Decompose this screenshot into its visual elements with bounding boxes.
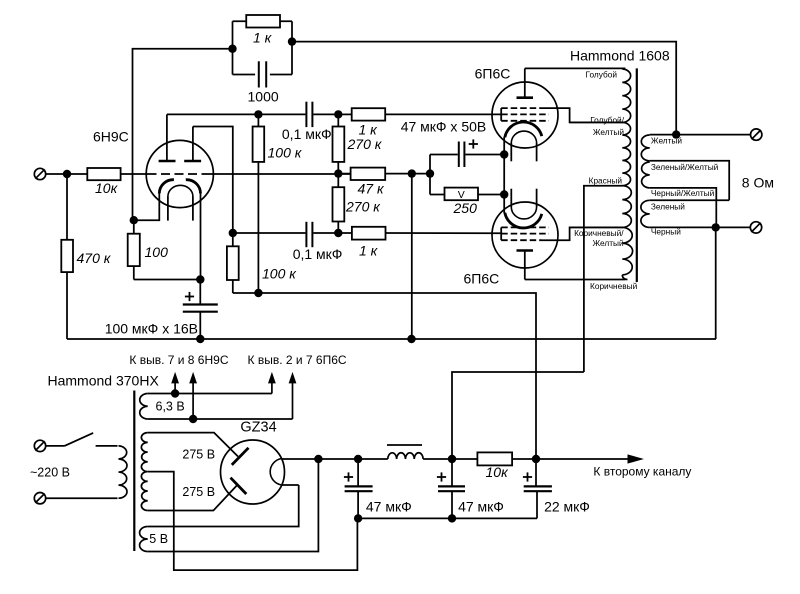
6П6С top cathode [505, 122, 542, 137]
resistor 470 к (input load) [66, 174, 68, 240]
svg-text:Желтый: Желтый [651, 136, 683, 146]
svg-text:GZ34: GZ34 [240, 420, 276, 436]
node anode1 [254, 110, 262, 118]
node cap1 top [354, 455, 362, 463]
resistor 100 (cathode) [133, 220, 135, 234]
PT 6,3 В winding [140, 394, 148, 420]
svg-text:1 к: 1 к [253, 30, 273, 46]
wire PSU ground row [358, 517, 537, 519]
tube 6Н9С envelope [146, 140, 213, 207]
wire GZ34 filament low [282, 484, 299, 486]
heater arrow 3 [268, 372, 276, 394]
resistor 100 к (plate load 1) [257, 114, 259, 126]
6П6С top anode [517, 96, 534, 99]
wire to second channel + arrow [536, 458, 629, 460]
6П6С bottom heater [511, 207, 536, 219]
transformer core PT [133, 391, 135, 552]
wire mains bottom [46, 497, 118, 499]
wire OPT tap Голубой/Желтый [570, 121, 623, 123]
wire anode2 to divider [193, 127, 233, 234]
node cathode top [500, 150, 508, 158]
svg-text:6П6С: 6П6С [475, 65, 511, 81]
svg-text:Желтый: Желтый [592, 238, 624, 248]
capacitor 0,1 мкФ (upper) [258, 113, 305, 115]
svg-text:~220 В: ~220 В [30, 466, 70, 480]
node divider top [334, 110, 342, 118]
choke [388, 453, 423, 459]
wire cathode net vertical [429, 155, 431, 195]
wire [46, 173, 88, 175]
node filter 1 [448, 455, 456, 463]
wire cathode bottom [134, 279, 201, 281]
svg-text:47 к: 47 к [358, 181, 385, 197]
heater arrow 4 [289, 372, 297, 419]
wire secondary Черный [650, 226, 751, 228]
wire secondary Желтый [650, 134, 751, 136]
wire OPT tap Коричневый/Желтый [570, 226, 623, 228]
wire bottom anode to OPT [525, 279, 626, 281]
transformer core OPT [636, 68, 638, 282]
svg-text:Черный: Черный [651, 227, 681, 237]
node filter 2 [532, 455, 540, 463]
svg-text:К второму каналу: К второму каналу [593, 465, 691, 479]
capacitor 47 мкФ х 50В (cathode bypass) [430, 154, 458, 156]
ground bus wire [67, 338, 716, 340]
svg-text:47 мкФ: 47 мкФ [366, 499, 412, 515]
input terminal [34, 168, 45, 179]
wire top anode to OPT [525, 67, 626, 69]
capacitor 0,1 мкФ (lower) [233, 232, 306, 234]
svg-text:К выв. 7 и 8 6Н9С: К выв. 7 и 8 6Н9С [129, 353, 228, 367]
6П6С bottom grids (dashed) [501, 227, 549, 240]
svg-text:270 к: 270 к [345, 199, 381, 215]
resistor 10к (decoupling) [452, 458, 477, 460]
svg-text:100 к: 100 к [268, 145, 303, 161]
node feedback [228, 45, 236, 53]
resistor 270 к (upper) [337, 114, 339, 126]
svg-text:8 Ом: 8 Ом [742, 175, 774, 191]
svg-text:270 к: 270 к [347, 136, 383, 152]
svg-text:Черный/Желтый: Черный/Желтый [651, 188, 715, 198]
heater arrow 2 [189, 372, 197, 419]
6Н9С cathode 2 [186, 180, 201, 194]
svg-text:Hammond 370HX: Hammond 370HX [48, 373, 160, 389]
svg-text:470 к: 470 к [77, 250, 112, 266]
svg-text:100 мкФ х 16В: 100 мкФ х 16В [105, 321, 198, 337]
resistor 1 к (feedback) [232, 21, 234, 74]
svg-text:0,1 мкФ: 0,1 мкФ [293, 246, 343, 262]
resistor 270 к (lower) [337, 174, 339, 188]
6Н9С cathode 1 [159, 180, 174, 194]
svg-text:47 мкФ х 50В: 47 мкФ х 50В [401, 119, 487, 135]
mains terminal bottom [34, 493, 45, 504]
svg-text:Зеленый/Желтый: Зеленый/Желтый [651, 162, 719, 172]
heater arrow 1 [171, 372, 179, 394]
output terminal bottom [750, 222, 761, 233]
wire OPT tap Красный (B+) [584, 186, 623, 372]
wire top screen to OPT tap [542, 108, 624, 122]
6П6С top heater [511, 131, 536, 143]
wire cathodes link [503, 137, 505, 213]
OPT primary winding [622, 69, 630, 122]
wire PSU row [318, 458, 387, 460]
PT HV winding 275+275 [141, 433, 147, 511]
OPT secondary winding [641, 135, 649, 161]
wire HV CT to ground [148, 472, 358, 570]
svg-text:Коричневый/: Коричневый/ [574, 228, 624, 238]
node cathode1 [130, 216, 138, 224]
svg-text:22 мкФ: 22 мкФ [544, 499, 590, 515]
svg-text:275 В: 275 В [182, 485, 215, 499]
switch [46, 445, 65, 447]
6П6С bottom anode [517, 249, 534, 252]
svg-text:Зеленый: Зеленый [651, 202, 685, 212]
capacitor 1000 (feedback) [291, 21, 293, 74]
svg-text:100: 100 [145, 244, 169, 260]
node anode2 [229, 229, 237, 237]
wire choke to node [423, 458, 452, 460]
svg-text:47 мкФ: 47 мкФ [458, 499, 504, 515]
svg-text:1000: 1000 [248, 89, 279, 105]
wire 6,3В top [148, 393, 272, 395]
node feedback out [288, 37, 296, 45]
wire HV top to plate [148, 433, 238, 457]
wire plate loads to B+ [233, 293, 536, 459]
capacitor 22 мкФ [535, 459, 537, 486]
node ground-divider [407, 335, 415, 343]
node divider mid [334, 169, 342, 177]
wire secondary Зеленый/Желтый link [650, 161, 730, 201]
node cathode net [426, 169, 434, 177]
output terminal top [751, 129, 762, 140]
6Н9С anode 2 [184, 160, 201, 163]
svg-text:6Н9С: 6Н9С [93, 128, 129, 144]
mains terminal top [34, 440, 45, 451]
wire bottom screen to OPT tap [542, 227, 624, 240]
resistor 1 к (grid stopper bottom) [338, 232, 352, 234]
wire HV bottom to plate [148, 485, 237, 510]
node plate-load join [254, 289, 262, 297]
wire feedback from secondary [292, 42, 676, 135]
resistor V 250 (cathode bias) [430, 194, 445, 196]
svg-text:6,3 В: 6,3 В [156, 400, 185, 414]
GZ34 anode 1 [232, 448, 249, 465]
svg-text:6П6С: 6П6С [464, 270, 500, 286]
svg-text:100 к: 100 к [262, 266, 297, 282]
wire secondary Черный/Желтый link [650, 188, 717, 228]
node ground-100uF [196, 335, 204, 343]
GZ34 filament [270, 459, 281, 486]
capacitor 100 мкФ х 16В [199, 280, 201, 305]
node divider bottom [334, 229, 342, 237]
PT 5 В winding [140, 527, 148, 552]
GZ34 anode 2 [231, 478, 247, 494]
6Н9С grids (dashed) [148, 173, 209, 175]
svg-text:Коричневый: Коричневый [590, 281, 638, 291]
wire secondary to ground bus [715, 227, 717, 339]
6П6С bottom cathode [505, 213, 542, 228]
svg-text:5 В: 5 В [149, 532, 168, 546]
wire B+ to OPT CT [452, 372, 584, 459]
node PSU gnd 1 [354, 514, 362, 522]
wire secondary Зеленый [650, 199, 730, 201]
svg-text:V: V [458, 189, 465, 201]
resistor 1 к (grid stopper top) [338, 113, 351, 115]
6Н9С heater [168, 185, 193, 196]
6П6С top grids (dashed) [501, 108, 549, 121]
svg-text:К выв. 2 и 7 6П6С: К выв. 2 и 7 6П6С [248, 353, 347, 367]
wire divider to ground [411, 174, 413, 339]
node heater 6П6С [189, 415, 197, 423]
node PSU gnd 2 [448, 514, 456, 522]
svg-text:Голубой: Голубой [586, 70, 618, 80]
wire 6,3В bottom [148, 418, 293, 420]
rectifier GZ34 envelope [221, 440, 285, 504]
resistor 47 к [338, 173, 350, 175]
svg-text:250: 250 [453, 200, 478, 216]
wire grid row right [209, 173, 351, 175]
svg-text:275 В: 275 В [182, 448, 215, 462]
svg-text:0,1 мкФ: 0,1 мкФ [282, 126, 332, 142]
svg-text:Красный: Красный [589, 175, 623, 185]
wire [121, 173, 148, 175]
tube 6П6С bottom envelope [492, 202, 558, 268]
capacitor 47 мкФ (second) [451, 459, 453, 486]
PT primary winding [119, 446, 128, 498]
wire 47к to cathode net [412, 173, 430, 175]
resistor 100 к (plate load 2) [232, 233, 234, 246]
node heater 6Н9С [171, 389, 179, 397]
wire 5В top [148, 485, 299, 527]
svg-text:Hammond 1608: Hammond 1608 [570, 48, 670, 64]
node cathode bottom [500, 190, 508, 198]
tube 6П6С top envelope [492, 82, 558, 148]
wire GZ34 cathode out [282, 458, 319, 460]
capacitor 47 мкФ (first) [357, 459, 359, 486]
node secondary feedback [672, 130, 680, 138]
node cathode-cap [196, 275, 204, 283]
svg-text:1 к: 1 к [359, 243, 379, 259]
node divider-down [408, 169, 416, 177]
svg-text:Желтый: Желтый [593, 127, 625, 137]
node rectifier out [314, 455, 322, 463]
svg-text:10к: 10к [95, 180, 119, 196]
wire feedback to cathode [133, 49, 233, 220]
wire anode1 to node [167, 113, 259, 115]
node input [63, 170, 71, 178]
svg-text:Голубой/: Голубой/ [590, 115, 624, 125]
wire 5В bottom [148, 459, 319, 552]
svg-text:10к: 10к [486, 464, 510, 480]
node secondary ground [712, 223, 720, 231]
resistor 10к (grid stopper) [87, 168, 120, 180]
6Н9С anode 1 [159, 160, 176, 163]
